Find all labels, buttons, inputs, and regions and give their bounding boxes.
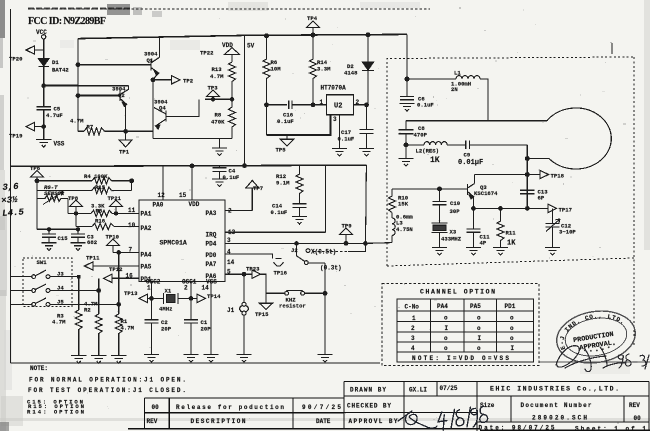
svg-text:DRAWN BY: DRAWN BY (350, 386, 386, 393)
ground (C2) (144, 355, 159, 363)
wire PA3 (225, 210, 252, 212)
svg-text:I: I (511, 345, 515, 352)
TP15 arrow (260, 303, 273, 309)
node C10 tap (438, 187, 442, 191)
svg-text:TP21: TP21 (108, 195, 122, 202)
svg-text:4: 4 (411, 345, 415, 352)
svg-text:FOR TEST OPERATION:J1 CLOSED.: FOR TEST OPERATION:J1 CLOSED. (28, 387, 186, 394)
svg-text:4.7M: 4.7M (210, 73, 224, 80)
node R4 tap (35, 179, 39, 183)
resistor R15 (92, 187, 112, 194)
KHZ jumper contacts (285, 291, 289, 295)
wire sensor down (67, 198, 69, 213)
wire X(0.5t) dashes under label (313, 251, 348, 253)
wire antenna top row (406, 120, 547, 122)
svg-text:2N: 2N (451, 86, 458, 93)
wire C1 to ground (190, 323, 192, 355)
wire IRQ riser (325, 165, 327, 232)
svg-text:PA5: PA5 (470, 303, 481, 310)
wire TP8 stem (75, 207, 77, 214)
wire TP5 stem (286, 135, 288, 139)
TP14 arrow (197, 294, 206, 302)
svg-text:0.01μF: 0.01μF (458, 159, 483, 167)
ground (VSS) (203, 355, 218, 363)
svg-text:PA4: PA4 (141, 252, 152, 259)
wire pin 15 (191, 166, 193, 200)
svg-text:I: I (478, 335, 482, 342)
resistor R8 (229, 99, 236, 138)
node D2 on bus (366, 33, 370, 37)
svg-text:J3: J3 (57, 271, 64, 278)
svg-text:4.7uF: 4.7uF (46, 112, 63, 119)
svg-text:o: o (444, 335, 448, 342)
node TP18 row (525, 173, 529, 177)
svg-text:TP7: TP7 (253, 185, 263, 192)
svg-text:NOTE:: NOTE: (30, 365, 48, 372)
handwritten left margin marks (0, 181, 25, 218)
capacitor C14 (292, 204, 306, 208)
capacitor C3 (71, 234, 85, 237)
wire R15 link (131, 181, 133, 191)
svg-text:TP10: TP10 (106, 234, 120, 241)
inductor L1 (456, 76, 480, 79)
wire PD4 long (225, 242, 392, 245)
TP21 arrow (110, 200, 123, 206)
capacitor C5 (37, 107, 52, 110)
capacitor C16 (series) (289, 100, 292, 109)
node R6 on bus (265, 34, 269, 38)
capacitor C13 (520, 190, 534, 193)
wire C10 stem (439, 189, 441, 201)
wire L2 to C9 (447, 144, 465, 146)
loop antenna (547, 108, 611, 169)
svg-text:IRQ: IRQ (206, 232, 217, 239)
node L1 feed (405, 77, 409, 81)
wire junction to box (44, 85, 78, 87)
svg-text:APPROVL BY: APPROVL BY (349, 418, 398, 425)
svg-text:15K: 15K (398, 201, 409, 208)
node R13 bottom (230, 98, 233, 101)
ground (x325) (317, 355, 332, 363)
wire TP23 to jumper riser (261, 274, 267, 293)
svg-text:×3½: ×3½ (1, 195, 18, 206)
J2 lower contact (304, 261, 308, 265)
resistor R14 (310, 35, 317, 105)
svg-text:J5: J5 (57, 298, 64, 305)
resistor R7 (84, 128, 105, 135)
node antenna bottom stub (525, 157, 529, 161)
svg-text:Q1: Q1 (147, 57, 154, 64)
wire X1 to TP14 (178, 297, 197, 299)
wire TP18 row (475, 174, 541, 176)
TP5 arrow (281, 139, 294, 146)
svg-text:4148: 4148 (344, 70, 358, 77)
resistor R3 (75, 310, 82, 356)
transistor Q4 (154, 108, 166, 130)
svg-text:C15: C15 (58, 235, 69, 242)
wire TP4 stem (312, 27, 314, 35)
wire pin2 to D2 net (354, 104, 367, 106)
TP13 arrow (139, 294, 148, 302)
wire TP9 stem (345, 235, 347, 244)
svg-text:TP23: TP23 (246, 265, 260, 272)
transistor Q2 (120, 86, 129, 107)
svg-text:SW1: SW1 (37, 259, 48, 266)
svg-text:VSS: VSS (54, 141, 65, 148)
svg-text:NOTE: I=VDD O=VSS: NOTE: I=VDD O=VSS (412, 355, 509, 362)
TP19 arrow (26, 122, 35, 130)
wire TP7 stem (251, 188, 253, 211)
svg-text:TP4: TP4 (307, 15, 318, 22)
node pin2/C17 (365, 103, 369, 107)
approval signature handwriting (398, 405, 489, 431)
svg-text:C9: C9 (464, 151, 471, 158)
svg-text:o: o (444, 345, 448, 352)
TP23 arrow (252, 270, 261, 278)
stamp signature scrawl (556, 346, 649, 372)
node TP21/R5 (114, 212, 117, 215)
wire L1 row (407, 78, 456, 80)
wire J1 net (243, 274, 245, 303)
TP7 arrow (246, 180, 259, 188)
wire TP2 node down (152, 80, 154, 139)
page index tick top right (611, 43, 613, 54)
node TP8/R5 (74, 212, 77, 215)
sheet left border (10, 9, 12, 363)
svg-text:DATE: DATE (316, 418, 331, 425)
svg-text:TP18: TP18 (551, 173, 565, 180)
wire C10 to X3 (439, 205, 441, 223)
svg-text:9.1M: 9.1M (276, 180, 290, 187)
wire C9 to antenna net (469, 144, 527, 146)
wire C16 to pin1 (292, 104, 327, 106)
wire C17 to ground (366, 133, 368, 148)
wire L2 row (406, 144, 424, 146)
svg-text:TP12: TP12 (109, 266, 123, 273)
svg-text:C10: C10 (450, 200, 461, 207)
wire C3 ground stem (77, 237, 79, 243)
IC U2 HT7070A box (327, 95, 354, 115)
resistor R1 (115, 314, 122, 356)
transistor Q3 KSC1674 (468, 184, 475, 199)
TP11 arrow (85, 262, 94, 270)
wire C8 to junction (405, 134, 407, 145)
resistor R10 (389, 189, 396, 213)
wire R15 row (37, 189, 132, 191)
wire R16 row (76, 226, 139, 229)
resistor R13 (229, 62, 236, 99)
svg-text:PA4: PA4 (437, 303, 448, 310)
svg-text:Q4: Q4 (159, 105, 166, 112)
wire C11 stem (473, 208, 475, 228)
svg-text:o: o (510, 335, 514, 342)
svg-text:Document Number: Document Number (521, 402, 592, 409)
channel option table frame (397, 299, 534, 362)
node C13 bottom (526, 207, 530, 211)
node D1/C5/Q2 junction (42, 84, 46, 88)
wire TP3 stem (212, 96, 214, 99)
capacitor C15 (42, 234, 56, 237)
svg-text:TP19: TP19 (9, 133, 23, 140)
node C15 tap (47, 228, 50, 231)
svg-text:0.1uF: 0.1uF (417, 102, 434, 109)
KHZ jumper bar (287, 290, 303, 293)
svg-text:PD4: PD4 (206, 240, 217, 247)
svg-text:o: o (510, 315, 514, 322)
wire KHZ jumper row left (266, 292, 285, 294)
svg-text:R2: R2 (84, 306, 91, 313)
svg-text:4MHz: 4MHz (159, 305, 172, 312)
wire D2 to pin2 (367, 71, 369, 105)
svg-text:R14: OPTION: R14: OPTION (27, 408, 84, 415)
wire TP8 node down (75, 213, 77, 226)
wire lower net to U2 (267, 115, 331, 135)
svg-text:TP1: TP1 (119, 149, 130, 156)
svg-text:1K: 1K (430, 156, 440, 165)
ground (R11) (493, 247, 508, 255)
node TP9 (344, 242, 348, 246)
resistor R5 (91, 210, 112, 216)
svg-text:5V: 5V (247, 43, 255, 50)
IC U1 SPMC01A box (139, 200, 225, 282)
svg-text:10M: 10M (271, 66, 282, 73)
node X(0.5t) riser (364, 242, 368, 246)
wire C17 net (366, 105, 368, 129)
TP1 arrow (119, 140, 132, 147)
wire PD0 (225, 254, 273, 259)
switch J3 (11, 270, 79, 278)
wire VDD to R13 (231, 54, 233, 62)
svg-text:X(0.5t): X(0.5t) (311, 248, 336, 255)
wire OSC1 stem (190, 282, 192, 299)
svg-text:PA5: PA5 (141, 264, 152, 271)
wire (0.3t) row (308, 262, 325, 264)
wire pin 12 (162, 166, 164, 200)
svg-text:TP2: TP2 (183, 77, 194, 84)
node C11 (472, 207, 476, 211)
svg-text:o: o (477, 325, 481, 332)
svg-text:VDD: VDD (222, 42, 233, 49)
TP6 arrow (31, 171, 44, 177)
stamp inner ellipse (562, 314, 629, 360)
wire pin3 stem (339, 115, 341, 149)
J2 lever (297, 256, 305, 261)
svg-text:J1: J1 (227, 307, 235, 314)
svg-text:682: 682 (87, 239, 98, 246)
wire TP21 stem (115, 207, 117, 214)
node J4/R2 (97, 289, 101, 293)
svg-text:1: 1 (412, 315, 416, 322)
wire C15/C3 row (37, 228, 78, 230)
wire R4 row (37, 180, 132, 182)
resistor R2 (95, 314, 102, 356)
wire C4 stem (219, 166, 221, 168)
RF dashed box (387, 57, 634, 266)
svg-text:CHANNEL OPTION: CHANNEL OPTION (420, 288, 495, 295)
svg-text:Size: Size (480, 402, 495, 409)
capacitor C4 (212, 168, 226, 172)
svg-text:289020.SCH: 289020.SCH (532, 414, 587, 421)
resistor R4 (92, 178, 112, 185)
svg-text:10: 10 (128, 222, 136, 229)
wire C4 to ground (219, 171, 221, 179)
TP2 stub wire (153, 79, 172, 81)
inductor L3 (392, 213, 395, 243)
svg-text:30P: 30P (450, 208, 461, 215)
ground (C1) (183, 355, 198, 363)
svg-text:2: 2 (356, 99, 360, 106)
wire C2 net (151, 298, 153, 319)
node R4/R15 right (130, 179, 134, 183)
svg-text:R13: R13 (212, 66, 223, 73)
wire R3 net (78, 277, 80, 310)
jumper J1 (240, 302, 249, 315)
wire IRQ (225, 231, 326, 233)
TP4 arrow (307, 21, 320, 27)
wire J1 to ground (243, 314, 245, 354)
wire R7 row (78, 130, 153, 132)
svg-text:20P: 20P (161, 326, 172, 333)
capacitor C1 (184, 320, 198, 323)
svg-text:4.7M: 4.7M (70, 118, 84, 125)
svg-text:R11: R11 (506, 230, 517, 237)
wire Q1 collector to bus (159, 37, 161, 57)
crystal X3 433MHZ (432, 223, 448, 232)
VDD top bus (78, 34, 407, 38)
wire R6 to C16 (267, 104, 288, 106)
svg-text:U2: U2 (334, 103, 342, 111)
svg-text:TP6: TP6 (30, 165, 41, 172)
svg-text:TP5: TP5 (276, 147, 287, 154)
wire VDD into box (406, 79, 408, 96)
svg-text:15: 15 (179, 192, 187, 199)
svg-text:TP8: TP8 (68, 195, 79, 202)
svg-text:470K: 470K (211, 119, 225, 126)
capacitor C10 (432, 201, 446, 204)
TP20 stub wire (35, 49, 44, 51)
resistor R6 (263, 36, 270, 105)
svg-text:R7: R7 (87, 124, 94, 131)
wire VDD bus riser to PD4 (365, 165, 368, 243)
wire riser 325 down (324, 263, 326, 355)
TP17 arrow (548, 204, 557, 212)
svg-text:6P: 6P (538, 194, 545, 201)
svg-text:o: o (477, 345, 481, 352)
ground (R2) (91, 356, 106, 364)
svg-text:DESCRIPTION: DESCRIPTION (191, 418, 246, 425)
wire TP15 stem (265, 293, 267, 303)
svg-text:3: 3 (411, 335, 415, 342)
svg-text:HT7070A: HT7070A (321, 85, 347, 92)
node C3 tap (76, 228, 79, 231)
wire R6 net down (266, 105, 268, 135)
svg-text:0.1uF: 0.1uF (338, 136, 355, 143)
svg-text:TP16: TP16 (274, 270, 288, 277)
main block frame (343, 382, 345, 429)
svg-text:PA0: PA0 (153, 201, 164, 208)
svg-text:00: 00 (152, 404, 160, 411)
capacitor C9 (series) (466, 141, 470, 150)
wire box left edge (77, 39, 79, 132)
transistor Q1 (151, 57, 160, 75)
switch J4 (11, 284, 99, 292)
svg-text:C-No: C-No (405, 303, 420, 310)
capacitor C11 (466, 229, 480, 232)
wire C11 to ground (473, 232, 475, 247)
svg-text:2: 2 (184, 285, 188, 292)
wire PD1 row (112, 277, 139, 279)
svg-text:I: I (445, 325, 449, 332)
J2 upper contact (306, 249, 310, 253)
ground (C3) (70, 243, 85, 251)
sensor strike arrow (43, 192, 63, 205)
wire PA5 row (93, 265, 139, 267)
svg-text:o: o (444, 315, 448, 322)
trimmer C12 (545, 208, 560, 247)
wire D1 to junction (43, 67, 45, 86)
VCC node (42, 35, 46, 39)
TP10 arrow (107, 239, 120, 245)
node link/bus2 (243, 164, 247, 168)
svg-text:433MHZ: 433MHZ (441, 235, 462, 242)
svg-text:L4.5: L4.5 (2, 207, 25, 219)
TP8 arrow (70, 200, 83, 206)
ground (C8 net) (398, 158, 413, 166)
VSS power symbol (36, 140, 51, 148)
node J3/R3 (77, 275, 81, 279)
resistor R16 (92, 223, 114, 229)
svg-text:REV: REV (147, 418, 158, 425)
svg-text:14: 14 (227, 259, 235, 266)
svg-text:20P: 20P (201, 326, 212, 333)
svg-text:SENSOR: SENSOR (44, 190, 65, 197)
stamp outer ellipse (553, 306, 639, 369)
switch J5 (11, 298, 119, 306)
resistor R11 (497, 208, 504, 247)
node R11 (499, 207, 503, 211)
TP2 arrow (172, 76, 181, 84)
inductor L2(RES) (424, 142, 447, 145)
wire C2 to ground (151, 323, 153, 355)
wire J2 stub from PD4 (296, 243, 298, 255)
wire Q1 base (78, 64, 151, 66)
wire C15 stem (48, 229, 50, 233)
svg-text:1: 1 (320, 99, 324, 106)
svg-text:R15: R15 (95, 184, 106, 191)
svg-text:EHIC INDUSTRIES Co.,LTD.: EHIC INDUSTRIES Co.,LTD. (490, 386, 619, 393)
svg-text:3,6: 3,6 (2, 182, 19, 193)
VDD arrow symbol (225, 48, 240, 55)
node R14/pin1 wire (311, 103, 315, 107)
svg-text:PA2: PA2 (141, 225, 152, 232)
svg-text:FCC ID: N9Z289BF: FCC ID: N9Z289BF (28, 16, 106, 27)
svg-text:L2(RES): L2(RES) (416, 147, 440, 154)
wire Q2 base thick (78, 95, 120, 97)
TP9 arrow (340, 228, 353, 234)
svg-text:3.3M: 3.3M (317, 66, 331, 73)
svg-text:PA3: PA3 (206, 210, 217, 217)
svg-text:FOR NORMAL OPERATION:J1 OPEN.: FOR NORMAL OPERATION:J1 OPEN. (29, 377, 186, 384)
ground (C4) (212, 179, 227, 187)
wire to C5 (43, 86, 45, 107)
capacitor C8 (399, 130, 414, 134)
sheet bottom border (11, 362, 381, 364)
ground (Q4 rail) (212, 148, 227, 156)
wire VCC down (43, 39, 45, 59)
svg-text:o: o (477, 315, 481, 322)
wire emitter rail (153, 138, 232, 140)
wire TP10 stem (112, 246, 114, 253)
